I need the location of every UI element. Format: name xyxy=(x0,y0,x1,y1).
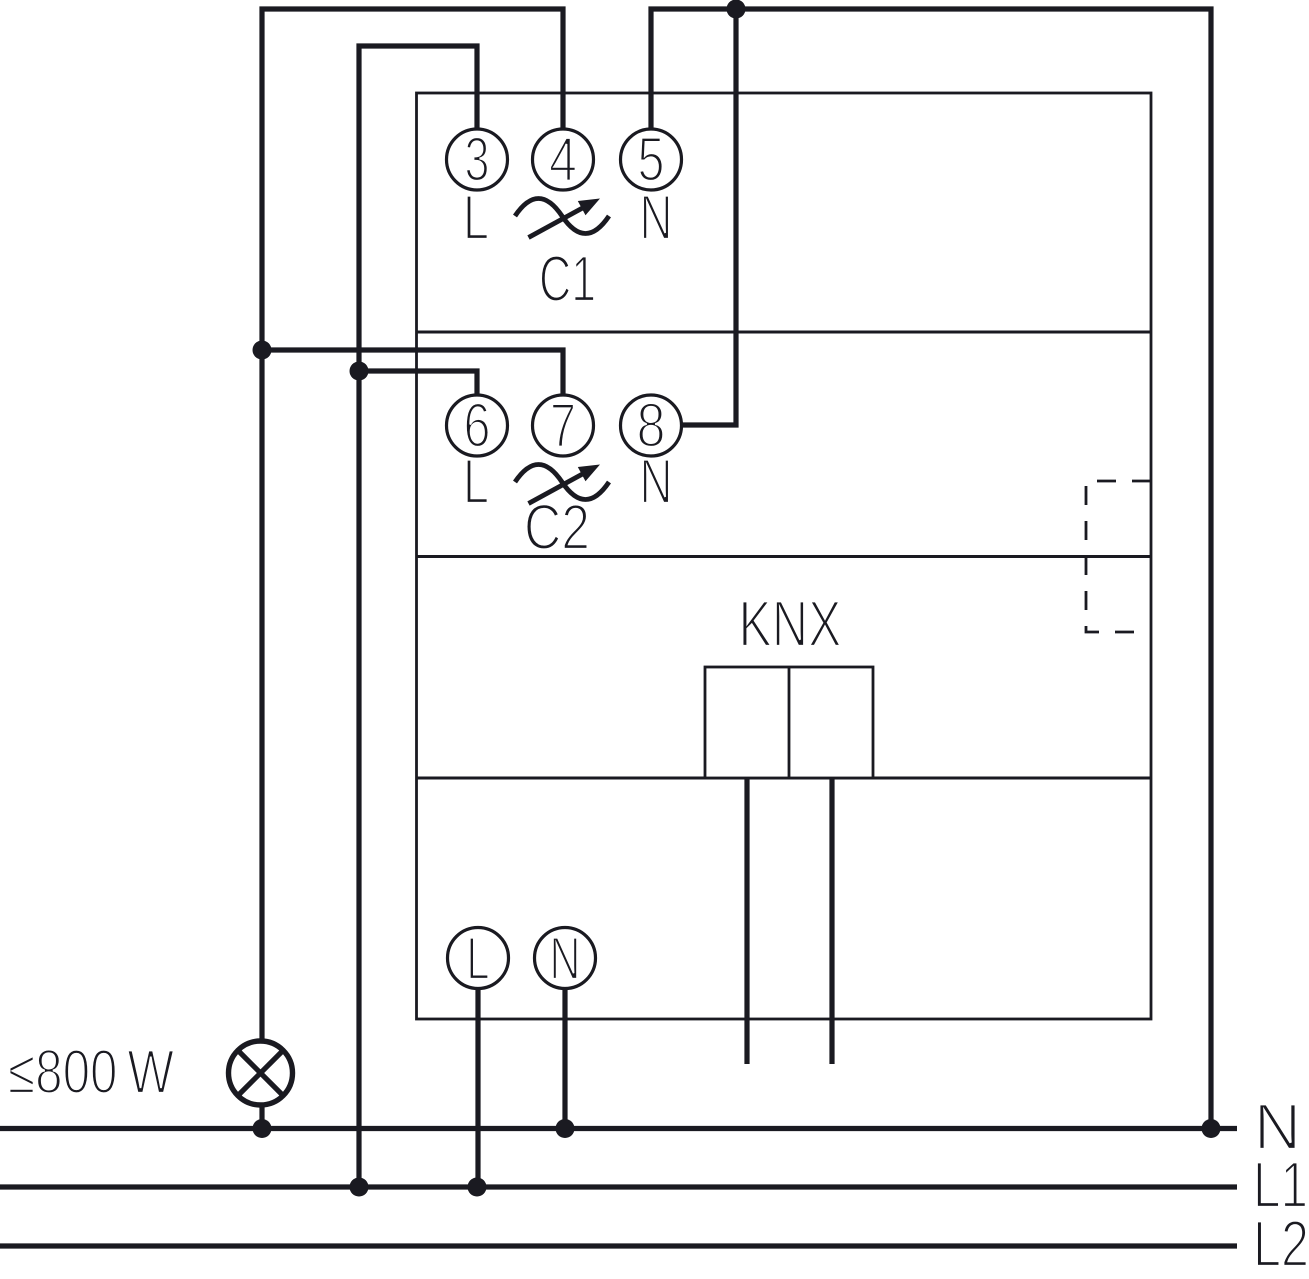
wire from bottom terminal N to N bus xyxy=(562,986,567,1129)
junction node (L1 rail to L1 bus) xyxy=(350,1178,369,1197)
wire from top N node down to terminal 8 xyxy=(682,9,736,425)
bus line L2 xyxy=(0,1243,1237,1248)
junction node (lamp to N bus) xyxy=(253,1119,272,1138)
svg-text:L: L xyxy=(467,925,490,992)
svg-text:N: N xyxy=(640,183,673,253)
svg-text:4: 4 xyxy=(549,126,577,195)
svg-text:L2: L2 xyxy=(1253,1207,1309,1279)
junction node (L1 rail / terminal 6 branch) xyxy=(350,362,369,381)
section divider 1 (below C1 block) xyxy=(417,331,1152,334)
terminal 8 xyxy=(621,392,682,461)
terminal 4 xyxy=(533,126,594,195)
terminal 3 xyxy=(447,126,508,195)
junction node (bottom terminal L to L1 bus) xyxy=(468,1178,487,1197)
section divider 2 (below C2 block) xyxy=(417,555,1152,558)
wire from bottom terminal L to L1 bus xyxy=(475,986,480,1187)
wire branch from node at (359,371) to terminal 6 xyxy=(359,371,477,397)
dimmer symbol C1 (sine wave with arrow) xyxy=(515,199,609,238)
svg-text:≤800 W: ≤800 W xyxy=(8,1038,174,1107)
lamp E1 (circle with X) xyxy=(229,1041,293,1105)
junction node (bottom terminal N to N bus) xyxy=(556,1119,575,1138)
svg-text:KNX: KNX xyxy=(739,587,842,660)
terminal L (bottom) xyxy=(448,925,509,992)
terminal 5 xyxy=(621,126,682,195)
terminal 7 xyxy=(533,392,594,461)
svg-text:7: 7 xyxy=(550,392,576,461)
svg-text:N: N xyxy=(550,925,581,992)
KNX bus connector block xyxy=(705,667,873,778)
KNX bus wire + xyxy=(744,778,749,1064)
svg-text:L: L xyxy=(463,447,489,517)
bus line L1 xyxy=(0,1184,1237,1189)
dimmer symbol C2 (sine wave with arrow) xyxy=(515,465,609,504)
svg-text:L: L xyxy=(463,183,489,253)
wire N rail: terminal 5 up over right and down to N bus xyxy=(651,9,1211,1129)
svg-text:N: N xyxy=(640,447,673,517)
terminal 6 xyxy=(447,392,508,461)
section divider 3 (below KNX block) xyxy=(417,777,1152,780)
wire below lamp to N bus xyxy=(259,1104,264,1129)
svg-text:C1: C1 xyxy=(539,242,596,315)
dashed extension box (right side) xyxy=(1086,481,1151,632)
device outline U1 (dimmer actuator box) xyxy=(417,93,1152,1019)
bus line N xyxy=(0,1126,1237,1131)
terminal N (bottom) xyxy=(535,925,596,992)
wire branch from node at (262,350) to terminal 7 xyxy=(262,350,563,397)
junction node (C1 output / terminal 7 branch) xyxy=(253,341,272,360)
svg-text:C2: C2 xyxy=(524,491,590,563)
KNX bus wire - xyxy=(829,778,834,1064)
junction node (right N wire to N bus) xyxy=(1202,1119,1221,1138)
junction node top (N wire to terminal 8) xyxy=(727,0,746,19)
wire from C1 output loop: terminal 4 up over to left rail down to lamp xyxy=(262,9,563,1042)
wire L1 rail: terminal 3 up over and down to L1 bus xyxy=(359,46,477,1187)
